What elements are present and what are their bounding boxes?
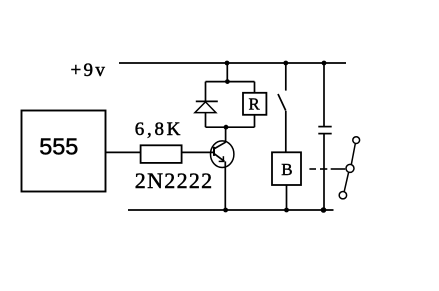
transistor Q1 2N2222 NPN <box>211 141 234 168</box>
wire 555 output to resistor R1 <box>106 151 142 153</box>
IC U1 555 timer box <box>22 111 106 192</box>
node junction parallel-bottom to collector <box>224 125 229 130</box>
switch S2 top contact terminal <box>353 137 360 144</box>
wire resistor R1 to base of Q1 <box>181 151 214 153</box>
wire diode branch upper segment <box>205 82 207 102</box>
diode D1 triangle <box>195 102 216 113</box>
wire Q1 collector up to relay coil node <box>225 127 227 142</box>
wire R branch upper segment <box>254 82 256 93</box>
wire R branch lower segment <box>254 115 256 127</box>
node junction capacitor to ground rail <box>321 207 327 213</box>
wire top rail down to diode/coil parallel top <box>226 63 228 82</box>
svg-text:6,8K: 6,8K <box>135 119 183 140</box>
wire buzzer B to ground rail <box>286 185 288 210</box>
capacitor C1 bottom plate <box>318 133 331 135</box>
node junction top rail to switch branch <box>283 61 288 66</box>
relay coil R box <box>243 93 266 115</box>
switch S2 lever upper <box>351 144 355 165</box>
buzzer B box <box>272 152 301 185</box>
wire top rail down to capacitor C1 <box>323 63 325 127</box>
wire parallel combination bottom horizontal <box>206 126 255 128</box>
resistor R1 6,8K body <box>141 145 182 163</box>
node junction emitter to ground rail <box>223 208 228 213</box>
diode D1 flyback (cathode bar) <box>196 100 218 102</box>
wire top rail down to relay contact <box>285 63 287 91</box>
node junction top rail to relay branch <box>225 61 230 66</box>
wire bottom ground rail <box>128 209 334 211</box>
wire diode branch lower segment <box>205 113 207 128</box>
switch S2 lever lower <box>344 172 348 191</box>
switch S2 bottom contact terminal <box>339 192 346 199</box>
capacitor C1 top plate <box>318 126 331 128</box>
wire Q1 emitter down to ground rail <box>224 161 226 210</box>
node junction top rail to capacitor branch <box>322 61 327 66</box>
wire top +9v rail <box>119 62 346 64</box>
svg-text:555: 555 <box>39 134 78 160</box>
svg-text:R: R <box>249 95 261 114</box>
mechanical link dashed line from B to switch S2 <box>309 168 345 170</box>
switch S2 common terminal <box>346 164 354 172</box>
wire parallel combination top horizontal <box>206 81 255 83</box>
svg-text:+9v: +9v <box>71 60 108 81</box>
wire relay contact to buzzer B <box>285 111 287 153</box>
wire capacitor C1 to ground rail <box>323 134 325 210</box>
switch S1 relay contact lever <box>278 94 286 111</box>
svg-text:B: B <box>281 160 292 179</box>
svg-text:2N2222: 2N2222 <box>135 168 214 193</box>
node junction parallel-top <box>225 79 230 84</box>
node junction buzzer to ground rail <box>284 208 289 213</box>
